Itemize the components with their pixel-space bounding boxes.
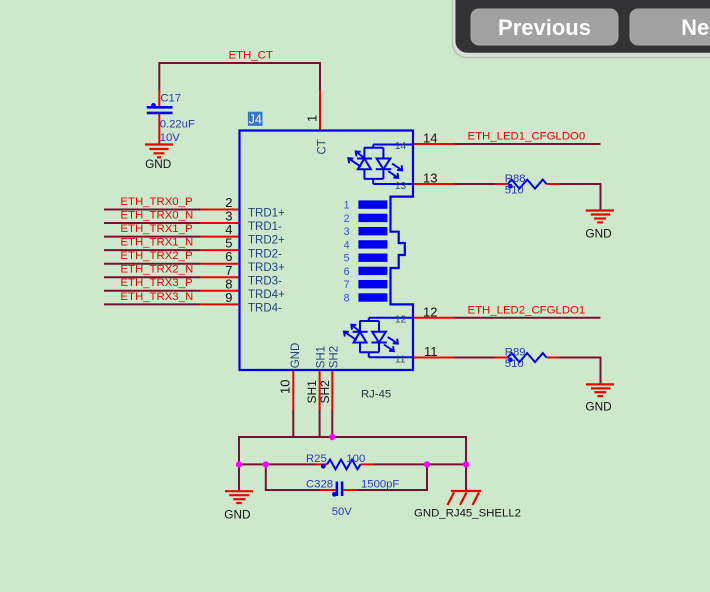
svg-text:GND: GND [145, 157, 171, 171]
RJ45 contact numbers 1-8 [344, 200, 350, 305]
wire ETH_TRX1_N [104, 249, 201, 251]
toolbar panel top right [453, 0, 710, 58]
capacitor C328 plates [337, 482, 342, 497]
pin 9 [201, 303, 241, 305]
button Next [630, 9, 710, 45]
wire R89 to GND [560, 358, 601, 385]
pin SH1 [319, 370, 321, 410]
wire SH1 down [319, 410, 321, 437]
pin SH2 [331, 370, 333, 410]
svg-text:TRD1+: TRD1+ [248, 208, 285, 220]
wire ETH_TRX0_P [104, 209, 201, 211]
wire ETH_TRX2_P [104, 263, 201, 265]
svg-text:GND_RJ45_SHELL2: GND_RJ45_SHELL2 [414, 508, 521, 520]
junction dot bus right [463, 461, 469, 467]
origin dot R25 [321, 464, 326, 469]
capacitor C328 right lead [343, 489, 358, 491]
svg-text:ETH_TRX0_N: ETH_TRX0_N [120, 209, 193, 221]
svg-text:4: 4 [344, 239, 350, 251]
svg-text:1: 1 [344, 200, 350, 212]
svg-text:ETH_CT: ETH_CT [229, 50, 273, 62]
svg-text:6: 6 [344, 266, 350, 278]
svg-text:TRD4-: TRD4- [248, 302, 282, 314]
svg-text:12: 12 [395, 315, 407, 326]
svg-text:TRD3-: TRD3- [248, 275, 282, 287]
capacitor C328 left lead [321, 489, 336, 491]
wire ETH_TRX3_N [104, 303, 201, 305]
resistor R88 [508, 180, 547, 189]
resistor R89 [508, 353, 547, 362]
resistor R25 left lead [315, 463, 327, 465]
junction dot cap branch left [263, 461, 269, 467]
resistor R88 left lead [495, 183, 508, 185]
svg-text:ETH_TRX1_P: ETH_TRX1_P [120, 223, 192, 235]
svg-text:ETH_TRX2_P: ETH_TRX2_P [120, 250, 192, 262]
svg-text:ETH_LED2_CFGLDO1: ETH_LED2_CFGLDO1 [468, 304, 586, 316]
wire LED2 top to pin12 [369, 317, 413, 319]
svg-text:TRD1-: TRD1- [248, 221, 282, 233]
svg-text:R89: R89 [505, 346, 526, 358]
origin dot R88 [508, 184, 513, 189]
ground symbol right of R89 [586, 384, 614, 396]
ground symbol under C17 [145, 145, 173, 158]
wire chassis drop [465, 464, 467, 491]
resistor R25 [327, 460, 361, 470]
svg-text:R25: R25 [306, 453, 327, 465]
wire LED bottom to pin13 [373, 183, 413, 185]
svg-text:5: 5 [344, 253, 350, 265]
resistor R89 right lead [547, 357, 561, 359]
svg-text:14: 14 [423, 131, 437, 146]
svg-text:CT: CT [316, 139, 328, 154]
wire ETH_TRX0_N [104, 222, 201, 224]
svg-text:8: 8 [344, 292, 350, 304]
svg-text:C328: C328 [306, 479, 333, 491]
origin dot C17 [151, 103, 156, 108]
svg-text:SH2: SH2 [328, 346, 340, 368]
svg-text:11: 11 [395, 354, 406, 365]
svg-text:ETH_TRX0_P: ETH_TRX0_P [120, 196, 192, 208]
pin 1 CT [319, 91, 321, 130]
wire R25 to right [374, 463, 466, 465]
origin dot C328 [332, 492, 337, 497]
svg-text:1: 1 [305, 115, 320, 122]
svg-text:GND: GND [290, 343, 302, 369]
capacitor C17 top lead [158, 91, 160, 107]
svg-text:C17: C17 [160, 93, 181, 105]
wire left GND drop [238, 464, 240, 491]
svg-text:510: 510 [505, 185, 524, 197]
svg-text:50V: 50V [332, 506, 353, 518]
svg-text:GND: GND [224, 508, 250, 522]
svg-text:ETH_TRX2_N: ETH_TRX2_N [120, 264, 193, 276]
wire LED2 bottom to pin11 [369, 356, 413, 358]
svg-text:3: 3 [344, 226, 350, 238]
svg-text:12: 12 [423, 304, 437, 319]
svg-text:1500pF: 1500pF [361, 479, 399, 491]
svg-text:13: 13 [395, 181, 407, 192]
wire ETH_CT horizontal [159, 63, 320, 91]
pin 13 [413, 183, 455, 185]
svg-text:GND: GND [585, 400, 611, 414]
wire pin14 net [455, 143, 601, 145]
svg-text:100: 100 [346, 453, 365, 465]
resistor R88 right lead [547, 183, 561, 185]
svg-text:ETH_TRX1_N: ETH_TRX1_N [120, 237, 193, 249]
wire ETH_TRX3_P [104, 290, 201, 292]
svg-text:13: 13 [423, 171, 437, 186]
svg-text:11: 11 [424, 344, 438, 359]
svg-text:510: 510 [505, 358, 524, 370]
svg-text:J4: J4 [249, 113, 262, 127]
pin 7 [201, 276, 241, 278]
LED pair pins 14-13 [348, 145, 402, 185]
wire pin12 net [455, 317, 601, 319]
capacitor C17 bottom lead [158, 114, 160, 145]
chassis ground GND_RJ45_SHELL2 [448, 491, 482, 505]
pin 14 [413, 143, 455, 145]
ground symbol bottom left [225, 491, 253, 503]
wire pin10 down [292, 410, 294, 437]
svg-text:GND: GND [585, 226, 611, 240]
origin dot R89 [508, 357, 513, 362]
junction dot SH2 bus [329, 434, 335, 440]
wire cap branch right [358, 464, 427, 490]
LED pair pins 12-11 [344, 318, 398, 358]
svg-text:Previous: Previous [498, 15, 591, 40]
wire ETH_TRX1_P [104, 236, 201, 238]
button Previous [471, 9, 618, 45]
svg-text:10V: 10V [160, 132, 181, 144]
designator J4 highlight [248, 112, 263, 126]
svg-text:SH1: SH1 [316, 346, 328, 368]
svg-text:TRD2+: TRD2+ [248, 235, 285, 247]
capacitor C17 plates [147, 107, 173, 113]
svg-text:R88: R88 [505, 173, 526, 185]
svg-text:0.22uF: 0.22uF [160, 119, 195, 131]
svg-text:RJ-45: RJ-45 [361, 389, 391, 401]
svg-text:9: 9 [225, 290, 232, 305]
svg-text:TRD3+: TRD3+ [248, 262, 285, 274]
svg-text:ETH_TRX3_N: ETH_TRX3_N [120, 291, 193, 303]
wire pin11 to R89 [455, 357, 495, 359]
wire bus left to R25 [239, 463, 315, 465]
svg-text:ETH_LED1_CFGLDO0: ETH_LED1_CFGLDO0 [468, 131, 586, 143]
svg-text:Next: Next [681, 15, 710, 40]
svg-text:ETH_TRX3_P: ETH_TRX3_P [120, 277, 192, 289]
pin 5 [201, 249, 241, 251]
ground symbol right of R88 [586, 211, 614, 223]
pin 2 [201, 209, 241, 211]
wire pin13 to R88 [455, 183, 495, 185]
RJ45 contact bars 1-8 [358, 200, 387, 301]
wire shield bus upper [239, 437, 466, 464]
svg-text:TRD4+: TRD4+ [248, 289, 285, 301]
connector J4 body outline [240, 131, 414, 371]
pin 12 [413, 317, 455, 319]
svg-text:SH2: SH2 [318, 380, 332, 404]
wire ETH_TRX2_N [104, 276, 201, 278]
wire LED top to pin14 [373, 144, 413, 146]
resistor R25 right lead [361, 463, 375, 465]
pin 6 [201, 263, 241, 265]
wire cap branch left [266, 464, 321, 490]
resistor R89 left lead [495, 357, 508, 359]
pin 11 [413, 357, 455, 359]
pin 4 [201, 236, 241, 238]
svg-text:10: 10 [278, 380, 293, 394]
svg-text:2: 2 [344, 213, 350, 225]
svg-text:14: 14 [395, 141, 407, 152]
junction dot cap branch right [424, 461, 430, 467]
pin 3 [201, 222, 241, 224]
wire R88 to GND [560, 184, 601, 211]
svg-text:TRD2-: TRD2- [248, 248, 282, 260]
junction dot bus left [236, 461, 242, 467]
pin 10 [292, 370, 294, 410]
pin 8 [201, 290, 241, 292]
wire SH2 down [331, 410, 333, 437]
svg-text:7: 7 [344, 279, 350, 291]
svg-text:SH1: SH1 [305, 380, 319, 404]
